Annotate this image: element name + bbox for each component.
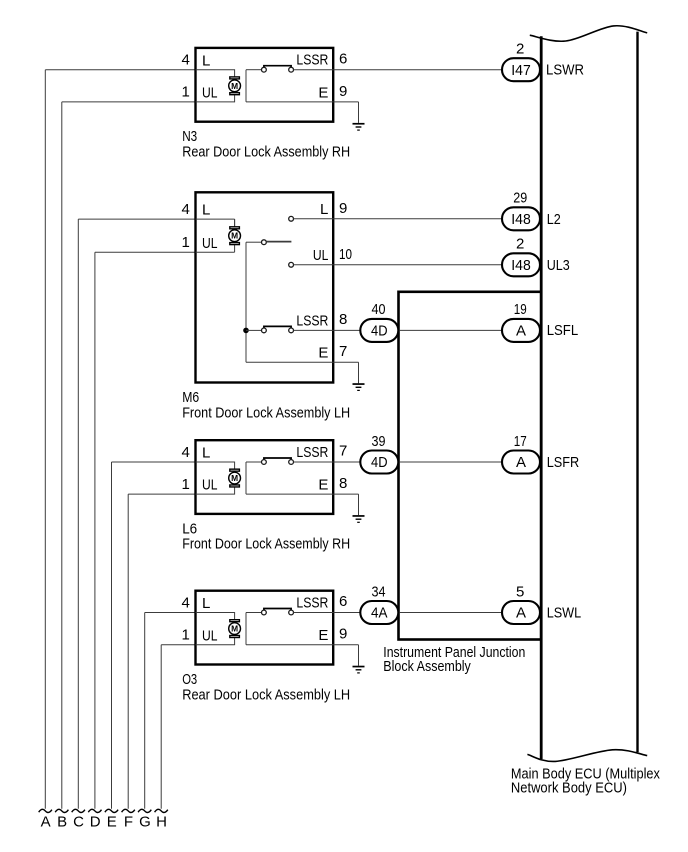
svg-text:H: H bbox=[156, 813, 167, 830]
svg-text:Rear Door Lock Assembly LH: Rear Door Lock Assembly LH bbox=[182, 686, 350, 703]
svg-text:1: 1 bbox=[181, 84, 189, 101]
svg-text:LSWR: LSWR bbox=[546, 62, 584, 79]
svg-text:F: F bbox=[124, 813, 133, 830]
svg-text:5: 5 bbox=[516, 583, 524, 600]
svg-text:8: 8 bbox=[339, 475, 347, 492]
svg-text:L2: L2 bbox=[547, 211, 561, 228]
svg-text:4D: 4D bbox=[371, 454, 388, 471]
svg-text:LSSR: LSSR bbox=[296, 595, 328, 612]
svg-text:2: 2 bbox=[516, 236, 524, 253]
svg-text:L: L bbox=[202, 445, 210, 462]
svg-text:4: 4 bbox=[181, 52, 189, 69]
svg-text:LSSR: LSSR bbox=[296, 444, 328, 461]
svg-text:E: E bbox=[318, 477, 328, 494]
svg-text:UL: UL bbox=[202, 235, 218, 252]
svg-text:D: D bbox=[90, 813, 101, 830]
svg-text:UL: UL bbox=[202, 85, 218, 102]
svg-text:A: A bbox=[516, 605, 526, 622]
svg-text:I48: I48 bbox=[511, 211, 531, 228]
svg-text:E: E bbox=[318, 627, 328, 644]
svg-text:G: G bbox=[139, 813, 151, 830]
svg-text:UL: UL bbox=[202, 477, 218, 494]
svg-text:7: 7 bbox=[339, 443, 347, 460]
svg-text:2: 2 bbox=[516, 41, 524, 58]
svg-text:7: 7 bbox=[339, 343, 347, 360]
svg-text:9: 9 bbox=[339, 83, 347, 100]
svg-text:4A: 4A bbox=[371, 605, 388, 622]
svg-text:L: L bbox=[320, 201, 328, 218]
svg-text:40: 40 bbox=[372, 301, 386, 318]
svg-text:LSFR: LSFR bbox=[547, 454, 580, 471]
svg-text:L: L bbox=[202, 52, 210, 69]
svg-text:9: 9 bbox=[339, 626, 347, 643]
svg-text:6: 6 bbox=[339, 593, 347, 610]
svg-text:4: 4 bbox=[181, 444, 189, 461]
svg-text:34: 34 bbox=[372, 583, 386, 600]
svg-text:M: M bbox=[231, 624, 238, 634]
svg-text:LSFL: LSFL bbox=[547, 322, 579, 339]
svg-text:LSSR: LSSR bbox=[296, 312, 328, 329]
svg-text:M: M bbox=[231, 473, 238, 483]
svg-text:Network Body ECU): Network Body ECU) bbox=[511, 780, 627, 797]
svg-text:10: 10 bbox=[339, 246, 352, 263]
svg-text:Front Door Lock Assembly RH: Front Door Lock Assembly RH bbox=[182, 536, 350, 553]
svg-text:9: 9 bbox=[339, 200, 347, 217]
svg-text:E: E bbox=[107, 813, 117, 830]
svg-text:I47: I47 bbox=[511, 62, 531, 79]
svg-text:M: M bbox=[231, 81, 238, 91]
svg-text:4: 4 bbox=[181, 594, 189, 611]
svg-text:29: 29 bbox=[513, 190, 527, 207]
svg-text:8: 8 bbox=[339, 311, 347, 328]
svg-text:I48: I48 bbox=[511, 257, 531, 274]
svg-text:39: 39 bbox=[372, 433, 386, 450]
svg-text:A: A bbox=[516, 454, 526, 471]
svg-text:E: E bbox=[318, 345, 328, 362]
svg-text:A: A bbox=[516, 323, 526, 340]
svg-text:B: B bbox=[57, 813, 67, 830]
svg-text:M: M bbox=[231, 231, 238, 241]
svg-text:6: 6 bbox=[339, 50, 347, 67]
svg-text:LSWL: LSWL bbox=[547, 604, 582, 621]
svg-text:L: L bbox=[202, 595, 210, 612]
svg-text:LSSR: LSSR bbox=[296, 52, 328, 69]
svg-text:C: C bbox=[73, 813, 84, 830]
svg-text:1: 1 bbox=[181, 234, 189, 251]
svg-text:4: 4 bbox=[181, 201, 189, 218]
svg-text:Rear Door Lock Assembly RH: Rear Door Lock Assembly RH bbox=[182, 144, 350, 161]
svg-text:Front Door Lock Assembly LH: Front Door Lock Assembly LH bbox=[182, 404, 350, 421]
svg-text:Block Assembly: Block Assembly bbox=[383, 658, 471, 675]
svg-text:L: L bbox=[202, 202, 210, 219]
svg-text:1: 1 bbox=[181, 476, 189, 493]
svg-text:1: 1 bbox=[181, 627, 189, 644]
svg-text:4D: 4D bbox=[371, 323, 388, 340]
svg-text:19: 19 bbox=[514, 301, 527, 318]
svg-text:E: E bbox=[318, 84, 328, 101]
svg-text:A: A bbox=[41, 813, 51, 830]
svg-text:UL: UL bbox=[313, 247, 329, 264]
svg-text:17: 17 bbox=[514, 433, 527, 450]
svg-text:UL: UL bbox=[202, 627, 218, 644]
svg-text:UL3: UL3 bbox=[547, 257, 570, 274]
